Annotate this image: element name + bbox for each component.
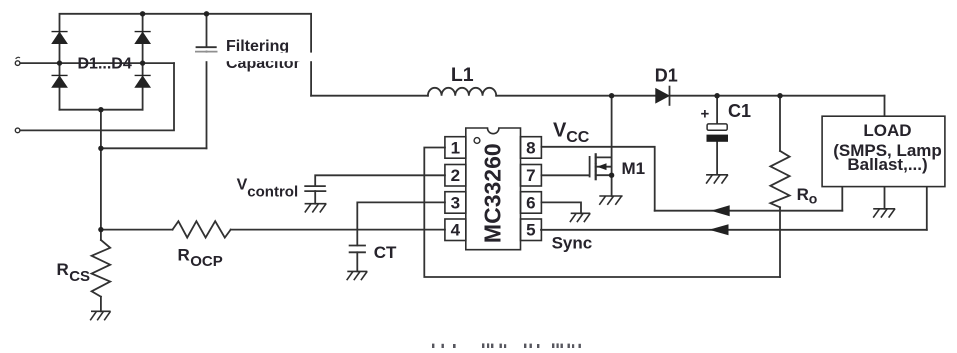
capacitor CT plate bottom: [350, 251, 365, 253]
node AC tilde mark: [16, 57, 20, 59]
op-amp U1 MC33260 body: [445, 128, 542, 250]
node AC terminal 1: [15, 61, 20, 66]
svg-text:4: 4: [451, 221, 461, 240]
wire bridge branch2 top: [142, 14, 144, 63]
transistor M1 body tap: [596, 166, 612, 168]
wire center negative vertical: [100, 110, 102, 240]
svg-text:D1: D1: [655, 66, 678, 86]
svg-text:6: 6: [526, 193, 535, 212]
wire filtering cap top lead: [206, 14, 208, 46]
wire bridge bottom rail: [60, 109, 143, 111]
wire pin3: [357, 202, 445, 245]
node mid rail branch1: [57, 60, 62, 65]
transistor M1 source tap: [596, 174, 612, 176]
ground Vcontrol: [305, 204, 327, 213]
diode D1 triangle: [656, 89, 669, 103]
node top rail branch2: [140, 11, 145, 16]
wire Vcontrol cap to ground: [314, 191, 316, 204]
wire bridge branch1 lower: [59, 63, 61, 110]
wire C1 bottom lead: [716, 142, 718, 175]
wire sync arrow line 2: [541, 229, 927, 231]
wire Ro top lead: [779, 96, 781, 151]
capacitor CT plate top: [350, 245, 365, 247]
wire node to Rocp: [101, 229, 173, 231]
diode bridge upper-left: [52, 32, 68, 44]
svg-text:Sync: Sync: [552, 234, 593, 253]
white band artifact: [190, 53, 322, 62]
pin 6 box: [521, 192, 542, 214]
svg-text:5: 5: [526, 221, 535, 240]
wire Vcc pin8: [541, 147, 654, 211]
svg-text:OCP: OCP: [190, 253, 223, 270]
node M1 source: [609, 173, 614, 178]
svg-text:M1: M1: [622, 159, 646, 178]
resistor ROCP zigzag: [173, 221, 231, 237]
ground LOAD: [873, 209, 895, 218]
capacitor Filtering plate top: [197, 46, 216, 48]
capacitor Filtering plate bottom: [196, 51, 217, 53]
label pin numbers: [451, 138, 536, 239]
pin 2 box: [445, 165, 466, 187]
ground RCS: [90, 311, 110, 320]
pin 1 box: [445, 137, 466, 159]
wire load right bottom lead: [926, 187, 928, 230]
diode bridge lower-right: [135, 75, 151, 87]
diode bridge lower-left: [52, 75, 68, 87]
ground CT: [347, 271, 368, 280]
svg-text:control: control: [247, 184, 298, 201]
node M1 drain rail: [609, 93, 614, 98]
node C1 rail: [714, 93, 719, 98]
capacitor C1 plate top: [707, 124, 727, 130]
node bottom rail center: [98, 107, 103, 112]
pin 7 box: [521, 165, 542, 187]
capacitor C1 plate bottom: [707, 135, 729, 142]
ground M1 source: [599, 196, 622, 205]
svg-text:L1: L1: [451, 64, 474, 86]
wire filtering cap return: [101, 147, 207, 149]
svg-text:LOAD: LOAD: [863, 121, 911, 140]
wire pin2: [315, 175, 445, 186]
wire main rail right of D1: [670, 95, 885, 97]
pin 3 box: [445, 192, 466, 214]
transistor M1 drain tap: [596, 156, 612, 158]
arrowhead sync 2: [709, 224, 729, 235]
node AC terminal 2: [15, 128, 20, 133]
transistor M1 body arrow: [597, 163, 607, 170]
inductor L1: [428, 88, 496, 96]
wire load top lead: [884, 96, 886, 117]
wire filtering cap bottom lead: [206, 52, 208, 149]
node Ro rail: [777, 93, 782, 98]
svg-text:V: V: [553, 119, 567, 141]
node top rail cap: [204, 11, 209, 16]
pin 4 box: [445, 219, 466, 241]
wire load left bottom lead: [841, 187, 843, 211]
wire main rail middle: [496, 95, 656, 97]
ground C1: [706, 175, 728, 184]
node mid rail branch2: [140, 60, 145, 65]
diode D1 cathode bar: [669, 87, 671, 105]
wire main rail left: [311, 95, 428, 97]
node Rcs Rocp: [98, 227, 103, 232]
svg-text:CC: CC: [566, 129, 590, 146]
ground pin6: [570, 213, 590, 222]
wire pin4 to Rocp: [231, 229, 445, 231]
svg-text:+: +: [701, 106, 710, 123]
transistor M1 gate wire: [541, 174, 589, 176]
svg-text:3: 3: [451, 193, 460, 212]
wire M1 drain vertical: [611, 96, 613, 196]
wire feedback bottom rail: [424, 148, 780, 278]
svg-text:R: R: [178, 246, 190, 265]
svg-text:MC33260: MC33260: [480, 143, 506, 243]
wire feedback arrow line 1: [655, 210, 843, 212]
pin 5 box: [521, 219, 542, 241]
transistor M1 channel segments: [595, 154, 597, 179]
capacitor Vcontrol plate top: [305, 185, 325, 187]
capacitor Vcontrol plate bottom: [305, 190, 325, 192]
LOAD box: [822, 116, 945, 186]
diode bridge upper-right: [135, 32, 151, 44]
resistor RO zigzag: [770, 151, 789, 207]
svg-text:CS: CS: [69, 268, 90, 285]
transistor M1 gate bar: [589, 157, 591, 177]
svg-text:7: 7: [526, 166, 535, 185]
svg-text:2: 2: [451, 166, 460, 185]
svg-text:o: o: [809, 191, 818, 207]
svg-text:C1: C1: [728, 101, 751, 121]
wire bridge branch2 lower: [142, 63, 144, 110]
wire pin6: [541, 202, 581, 213]
wire C1 top lead: [716, 96, 718, 124]
wire AC2 input: [20, 63, 174, 130]
caption glyph tips (cropped text at bottom): [432, 343, 581, 348]
wire CT cap to ground: [356, 252, 358, 271]
svg-text:R: R: [57, 260, 69, 279]
resistor RCS zigzag: [92, 240, 111, 297]
svg-text:CT: CT: [374, 243, 397, 262]
svg-text:Filtering: Filtering: [226, 38, 289, 55]
svg-text:Ballast,...): Ballast,...): [847, 155, 927, 174]
wire Ro bottom lead: [779, 207, 781, 277]
wire top rail of bridge: [60, 14, 312, 96]
svg-text:V: V: [237, 176, 248, 193]
svg-text:D1...D4: D1...D4: [78, 55, 132, 72]
wire bridge mid rail AC1: [20, 62, 174, 64]
wire RCS to ground: [100, 297, 102, 312]
arrowhead feedback 1: [711, 205, 730, 216]
svg-text:1: 1: [451, 139, 460, 158]
label LOAD text: [833, 121, 942, 174]
svg-text:R: R: [797, 185, 809, 204]
svg-text:8: 8: [526, 138, 535, 157]
node cap return: [98, 146, 103, 151]
pin 8 box: [521, 137, 542, 159]
node pin1 indicator: [474, 138, 480, 144]
wire load ground lead: [884, 187, 886, 209]
